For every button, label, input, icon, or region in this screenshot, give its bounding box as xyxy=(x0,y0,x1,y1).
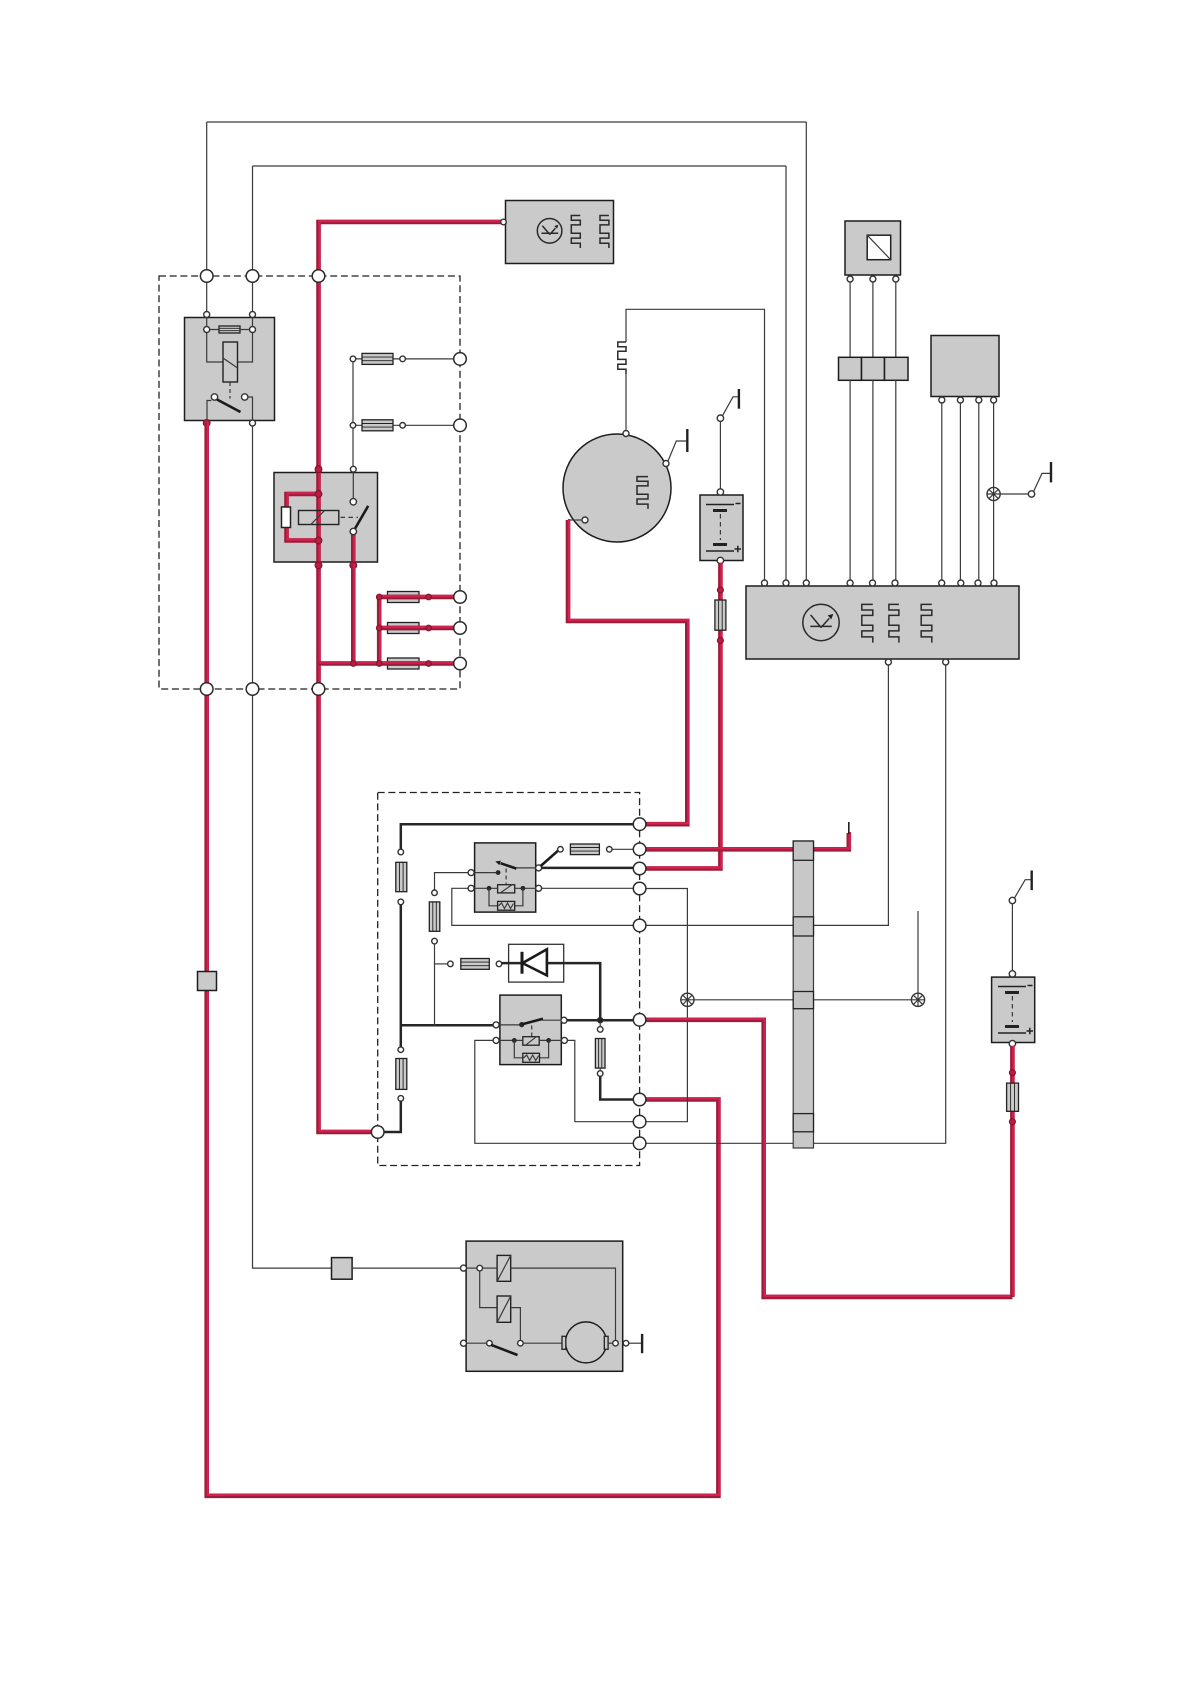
wire red main drop through group1 xyxy=(319,563,374,1132)
connector block 3-way xyxy=(839,357,909,380)
wire relay K2 switch to fuse rows xyxy=(352,359,354,466)
relay K1 (upper left) xyxy=(185,279,275,426)
dashed box component group 1 xyxy=(159,276,460,689)
fuse chain left column lower xyxy=(396,1047,407,1101)
node circles group1 right edge xyxy=(454,353,467,366)
battery G2 with switch to ground xyxy=(700,389,743,564)
junction dot diode feed xyxy=(597,1017,603,1023)
fuse on K3 86 branch xyxy=(429,890,440,944)
connector rail X1 xyxy=(793,841,813,1148)
wires M3 to control unit xyxy=(942,403,994,580)
wire red battery G3 down xyxy=(1010,1047,1015,1297)
wire thick fuse to node row7 xyxy=(600,1076,634,1099)
wire red feed sensor M1 to relay K2 xyxy=(319,222,506,471)
instrument unit M3 xyxy=(931,336,999,404)
wire lamp H2 to lamp H3 xyxy=(694,999,911,1001)
wire red generator to node row1 xyxy=(568,520,687,824)
fuse F6 xyxy=(558,844,635,855)
relay K4 (lower in group2) xyxy=(493,995,567,1065)
wire thick K3 30 to node row3 xyxy=(542,867,635,870)
wire relay K3 86 branch xyxy=(435,873,469,890)
fuse F2 row xyxy=(350,420,454,431)
wire K3 branch down to feed row xyxy=(434,944,436,1025)
control unit top terminals xyxy=(762,580,998,586)
wire generator B+ to control unit xyxy=(626,309,765,580)
fuse below junction xyxy=(595,1022,605,1076)
wire K4 87 to node row8 xyxy=(567,1040,634,1121)
lamp H3 with stub xyxy=(911,911,924,1006)
fuse chain left column upper xyxy=(396,849,407,905)
wire red node row6 to battery G3 xyxy=(646,1020,1013,1297)
wire K4 85 to node row9 xyxy=(475,1040,635,1143)
node circle group2 left edge xyxy=(371,1126,384,1139)
sensor unit M1 (top) xyxy=(506,201,614,264)
fuse F3 red row xyxy=(376,592,455,603)
diode V1 xyxy=(502,944,600,1019)
wire thick node row1 bus xyxy=(401,824,635,849)
connector square on red ground run xyxy=(198,972,217,991)
control unit U1 xyxy=(746,586,1019,659)
generator G1 xyxy=(563,431,671,543)
wires M2 to connector block xyxy=(850,282,896,357)
fuse F5 red row xyxy=(351,658,456,669)
starter ground xyxy=(623,1340,629,1346)
battery G3 with switch to ground xyxy=(992,871,1035,1047)
coil on generator wire xyxy=(618,342,626,374)
wire red relay K2 switch down xyxy=(351,565,356,664)
wire thick K4 30 to node row6 xyxy=(567,1019,635,1022)
wire red distribution row xyxy=(319,597,380,664)
starter motor unit M4 xyxy=(461,1241,623,1371)
dashed box component group 2 xyxy=(378,793,640,1166)
wire thick feed row to relay K4 xyxy=(401,1024,493,1027)
fuse on diode branch xyxy=(448,959,502,970)
wire node row5 to control unit xyxy=(646,665,889,925)
switch to ground at lamp H1 xyxy=(1000,493,1028,495)
fuse F4 red row xyxy=(376,623,455,634)
wire K3 85 to node row5 xyxy=(452,888,635,925)
terminal at sensor M1 xyxy=(501,219,507,225)
wire L1 top bus xyxy=(207,122,807,580)
wire K3 87 to node row4 xyxy=(542,887,635,889)
wire relay K1 87 to starter xyxy=(253,426,332,1268)
relay K2 (with resistor loop) xyxy=(274,466,378,569)
wire lamp column to node row8 xyxy=(646,1006,688,1121)
wire thick left column mid xyxy=(400,905,403,1047)
relay K3 (upper in group2) xyxy=(468,843,541,912)
wire red relay K1 to ground bus bottom xyxy=(207,423,719,1496)
node circles group1 top edge xyxy=(200,270,213,283)
lamp H1 on M3 wire xyxy=(987,487,1000,500)
node circles group1 bottom edge xyxy=(200,683,213,696)
wire red node row2 feed with terminal tick xyxy=(646,833,849,849)
wire node row9 to control unit xyxy=(646,665,946,1143)
wire node row4 to lamp column xyxy=(646,889,688,994)
connector square on starter wire xyxy=(332,1258,353,1280)
node circles group2 right edge xyxy=(633,818,646,831)
wire diode branch xyxy=(435,963,448,965)
wire connector to starter box xyxy=(352,1267,463,1269)
fuse F1 row xyxy=(350,353,454,364)
wire K3 switch to fuse F6 xyxy=(541,850,559,866)
wire left column to node on dashed edge xyxy=(383,1101,401,1132)
wire L2 second bus xyxy=(253,166,787,580)
fuse on battery G3 wire xyxy=(1007,1070,1019,1125)
ground at generator xyxy=(668,441,687,461)
wires connector block to control unit xyxy=(850,380,896,580)
fuse on battery red wire xyxy=(715,587,726,644)
control unit bottom terminals xyxy=(885,659,891,665)
sender unit M2 (diagonal square) xyxy=(845,221,901,282)
lamp H2 xyxy=(681,993,694,1006)
wire red battery G2 to node row3 xyxy=(646,564,720,869)
